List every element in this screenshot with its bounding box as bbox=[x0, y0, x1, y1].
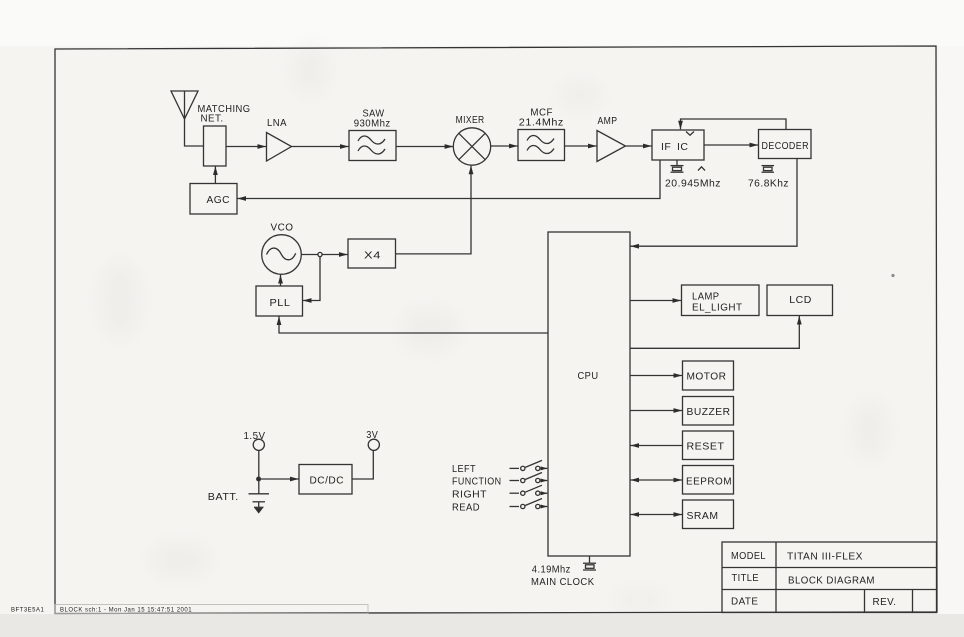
svg-text:RIGHT: RIGHT bbox=[452, 488, 487, 500]
MOTOR box bbox=[683, 361, 734, 390]
svg-text:LNA: LNA bbox=[267, 117, 287, 129]
wire junction to X4 bbox=[322, 254, 348, 256]
footer label box bbox=[55, 605, 368, 614]
wire AMP to IF IC bbox=[626, 145, 652, 147]
wire CPU to LAMP bbox=[630, 300, 681, 302]
svg-text:20.945Mhz: 20.945Mhz bbox=[665, 178, 721, 190]
wire junction to PLL bbox=[303, 257, 320, 301]
svg-text:EL_LIGHT: EL_LIGHT bbox=[692, 302, 743, 314]
wire LNA to SAW bbox=[292, 146, 349, 148]
amplifier AMP bbox=[597, 131, 626, 162]
speck artifact bbox=[891, 274, 894, 277]
wire VCO to junction bbox=[301, 254, 318, 256]
IF IC box U1 bbox=[652, 130, 704, 160]
wire SAW to mixer bbox=[396, 146, 453, 148]
mixer bbox=[453, 128, 490, 165]
svg-text:76.8Khz: 76.8Khz bbox=[748, 178, 789, 190]
svg-text:TITLE: TITLE bbox=[732, 572, 760, 584]
switch READ bbox=[510, 499, 548, 509]
svg-text:DC/DC: DC/DC bbox=[310, 475, 345, 487]
LCD box bbox=[767, 285, 833, 316]
wire CPU to PLL bbox=[279, 317, 548, 334]
faint scan mottling bbox=[100, 44, 888, 610]
wire battery rail bbox=[258, 450, 260, 493]
matching net box bbox=[204, 126, 227, 166]
wire mixer to MCF bbox=[491, 145, 518, 147]
svg-text:MIXER: MIXER bbox=[456, 114, 485, 126]
ground bbox=[254, 502, 264, 513]
svg-text:3V: 3V bbox=[366, 429, 378, 441]
BUZZER box bbox=[683, 397, 734, 426]
svg-text:READ: READ bbox=[452, 502, 480, 514]
svg-text:LCD: LCD bbox=[789, 294, 812, 306]
crystal X2 20.945Mhz bbox=[671, 160, 684, 172]
svg-text:LEFT: LEFT bbox=[452, 463, 476, 475]
svg-text:MOTOR: MOTOR bbox=[687, 371, 727, 383]
switch RIGHT bbox=[510, 485, 548, 495]
svg-text:DECODER: DECODER bbox=[762, 140, 810, 152]
svg-text:REV.: REV. bbox=[873, 596, 897, 608]
filter SAW 930Mhz bbox=[349, 131, 396, 161]
wire DECODER to CPU bbox=[631, 159, 798, 247]
svg-text:EEPROM: EEPROM bbox=[686, 476, 732, 488]
switch FUNCTION bbox=[510, 473, 548, 483]
PLL box bbox=[256, 286, 303, 316]
svg-text:BFT3E5A1: BFT3E5A1 bbox=[11, 608, 45, 614]
node battery junction bbox=[257, 477, 261, 481]
svg-text:NET.: NET. bbox=[201, 113, 224, 125]
svg-text:SRAM: SRAM bbox=[687, 510, 719, 522]
terminal 3V bbox=[368, 439, 379, 450]
wire CPU to LCD bbox=[630, 316, 799, 348]
svg-text:CPU: CPU bbox=[578, 370, 599, 382]
wire DC/DC to 3V bbox=[352, 450, 373, 479]
battery BATT. bbox=[249, 494, 270, 502]
amplifier LNA bbox=[267, 133, 292, 162]
wire IF IC to DECODER bbox=[704, 144, 758, 146]
svg-text:X4: X4 bbox=[364, 250, 381, 262]
AGC box bbox=[190, 184, 237, 215]
wire CPU to EEPROM bidirectional bbox=[631, 479, 683, 481]
svg-text:21.4Mhz: 21.4Mhz bbox=[519, 117, 564, 129]
wire CPU to MOTOR bbox=[630, 375, 682, 377]
svg-text:TITAN III-FLEX: TITAN III-FLEX bbox=[787, 551, 863, 563]
svg-text:BLOCK DIAGRAM: BLOCK DIAGRAM bbox=[788, 575, 875, 587]
node junction bbox=[318, 252, 322, 256]
wire X4 to mixer LO bbox=[396, 166, 472, 254]
svg-text:AMP: AMP bbox=[598, 115, 618, 127]
svg-text:1.5V: 1.5V bbox=[244, 430, 266, 442]
wire antenna to matching net bbox=[185, 119, 204, 146]
wire RESET to CPU bbox=[631, 445, 683, 447]
LAMP EL_LIGHT box bbox=[682, 285, 760, 316]
wire MCF to AMP bbox=[565, 145, 597, 147]
svg-text:4.19Mhz: 4.19Mhz bbox=[532, 564, 571, 576]
CPU box bbox=[548, 232, 630, 556]
svg-text:FUNCTION: FUNCTION bbox=[452, 476, 502, 488]
wire PLL to VCO bbox=[280, 275, 282, 286]
EEPROM box bbox=[683, 466, 734, 495]
wire IF IC to AGC feedback bbox=[238, 160, 661, 199]
oscillator VCO bbox=[262, 235, 302, 275]
switch LEFT bbox=[510, 460, 548, 470]
svg-text:BATT.: BATT. bbox=[208, 491, 239, 503]
wire matching net to LNA bbox=[226, 146, 266, 148]
wire DECODER top feedback to IF IC top bbox=[681, 119, 787, 130]
wire CPU to BUZZER bbox=[630, 410, 682, 412]
svg-text:BLOCK sch:1 - Mon Jan 15 15:47: BLOCK sch:1 - Mon Jan 15 15:47:51 2001 bbox=[60, 608, 192, 614]
crystal X1 4.19Mhz main clock bbox=[583, 556, 596, 570]
battery terminal 1.5V bbox=[253, 439, 264, 450]
svg-text:AGC: AGC bbox=[207, 194, 231, 206]
title block bbox=[722, 542, 937, 613]
svg-text:PLL: PLL bbox=[270, 297, 291, 309]
multiplier X4 box bbox=[348, 239, 396, 268]
SRAM box bbox=[683, 500, 734, 529]
svg-text:BUZZER: BUZZER bbox=[687, 406, 731, 418]
svg-text:930Mhz: 930Mhz bbox=[354, 118, 391, 130]
svg-text:RESET: RESET bbox=[687, 441, 725, 453]
footer plot stamp bbox=[11, 608, 192, 614]
svg-text:VCO: VCO bbox=[271, 222, 294, 234]
DC/DC converter box bbox=[299, 465, 352, 495]
wire AGC to matching net bbox=[214, 167, 216, 184]
DECODER box U2 bbox=[759, 130, 812, 159]
pin mark on IF IC top bbox=[686, 132, 694, 136]
wire battery to DC/DC bbox=[261, 478, 299, 480]
svg-text:DATE: DATE bbox=[731, 596, 759, 608]
svg-text:MAIN CLOCK: MAIN CLOCK bbox=[531, 576, 595, 588]
filter MCF 21.4Mhz bbox=[518, 130, 565, 161]
wire CPU to SRAM bidirectional bbox=[631, 514, 683, 516]
antenna bbox=[171, 91, 198, 119]
caret mark bbox=[698, 167, 705, 171]
RESET box bbox=[683, 431, 734, 460]
crystal X3 76.8Khz bbox=[762, 166, 775, 173]
svg-text:MODEL: MODEL bbox=[731, 550, 766, 562]
